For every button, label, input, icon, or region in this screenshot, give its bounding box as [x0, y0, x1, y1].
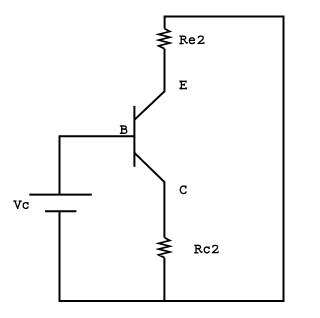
wire collector lead from transistor — [134, 153, 164, 238]
transistor Q1 bar — [133, 106, 135, 167]
battery Vc short plate — [45, 210, 76, 212]
label E — [180, 81, 186, 88]
wire emitter lead to transistor — [134, 49, 164, 120]
label Re2 — [180, 36, 204, 43]
wire collector bottom lead — [163, 258, 165, 302]
wire right rail — [283, 16, 285, 302]
wire battery bottom lead — [59, 211, 61, 302]
label B — [121, 126, 127, 133]
label Rc2 — [195, 245, 218, 252]
label C — [180, 186, 186, 194]
wire top rail — [165, 16, 284, 18]
wire bottom rail — [60, 300, 285, 302]
battery Vc long plate — [29, 194, 92, 196]
wire emitter top lead — [164, 16, 166, 29]
resistor Re2 — [159, 29, 170, 49]
wire base — [60, 135, 135, 137]
label Vc — [14, 201, 28, 208]
resistor Rc2 — [159, 238, 170, 258]
wire battery top lead — [59, 135, 61, 194]
